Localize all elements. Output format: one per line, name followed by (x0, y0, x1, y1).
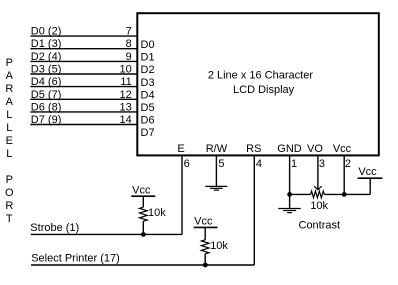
svg-text:L: L (6, 122, 12, 134)
svg-text:10k: 10k (310, 200, 328, 212)
svg-text:RS: RS (246, 143, 261, 155)
wire D1 (30, 48, 137, 50)
wire VO wiper (317, 155, 319, 189)
svg-text:T: T (6, 213, 13, 225)
svg-text:P: P (6, 174, 13, 186)
wire D4 (30, 86, 137, 88)
svg-text:8: 8 (126, 38, 132, 50)
svg-text:D1 (3): D1 (3) (31, 38, 62, 50)
svg-text:11: 11 (120, 76, 131, 88)
wire E to strobe (181, 155, 183, 234)
ground (contrast) (278, 194, 300, 212)
wire D2 (30, 60, 137, 62)
svg-text:P: P (6, 57, 13, 69)
svg-text:D5 (7): D5 (7) (31, 89, 62, 101)
svg-text:Vcc: Vcc (333, 143, 352, 155)
wire select printer (31, 264, 254, 266)
svg-text:2: 2 (345, 158, 351, 170)
wire strobe (31, 233, 182, 235)
LCD module U1 outline (137, 13, 378, 155)
resistor R2 10k (select pull-up) (201, 227, 209, 265)
svg-text:D2: D2 (141, 64, 155, 76)
svg-text:13: 13 (120, 101, 132, 113)
svg-text:D7: D7 (141, 127, 155, 139)
label PARALLEL PORT (5, 57, 14, 225)
wiper arrowhead (314, 186, 321, 190)
wire R/W to ground (215, 155, 217, 186)
svg-text:Vcc: Vcc (358, 166, 377, 178)
power Vcc symbol (strobe pull-up) (131, 185, 155, 197)
wire D3 (30, 73, 137, 75)
resistor R1 10k (strobe pull-up) (140, 196, 148, 234)
svg-text:9: 9 (126, 51, 132, 63)
svg-text:E: E (6, 135, 13, 147)
wire contrast rail (290, 178, 371, 194)
svg-text:D6: D6 (141, 115, 155, 127)
svg-text:12: 12 (120, 89, 132, 101)
svg-text:D7 (9): D7 (9) (31, 114, 62, 126)
wire RS to select printer (253, 155, 255, 265)
wire GND pin down (289, 155, 291, 194)
wire D7 (30, 124, 137, 126)
power Vcc symbol (right) (358, 166, 383, 178)
svg-text:1: 1 (291, 158, 297, 170)
svg-text:14: 14 (120, 114, 132, 126)
svg-text:A: A (6, 96, 14, 108)
svg-text:7: 7 (126, 26, 132, 38)
svg-text:VO: VO (307, 143, 323, 155)
svg-text:D3 (5): D3 (5) (31, 64, 62, 76)
svg-text:Contrast: Contrast (299, 219, 341, 231)
power Vcc symbol (select pull-up) (194, 215, 218, 227)
svg-text:10: 10 (120, 64, 132, 76)
svg-text:Select Printer (17): Select Printer (17) (31, 253, 120, 265)
junction node (select/RS) (203, 263, 208, 268)
svg-text:2 Line x 16 Character: 2 Line x 16 Character (208, 70, 314, 82)
svg-text:O: O (5, 187, 14, 199)
svg-text:R: R (5, 200, 13, 212)
wire Vcc pin down (343, 155, 345, 194)
svg-text:Strobe (1): Strobe (1) (30, 222, 79, 234)
svg-text:E: E (177, 143, 184, 155)
LCD module title (208, 70, 314, 97)
svg-text:10k: 10k (148, 207, 166, 219)
svg-text:D2 (4): D2 (4) (31, 51, 62, 63)
svg-text:Vcc: Vcc (132, 185, 151, 197)
svg-text:L: L (6, 109, 12, 121)
svg-text:GND: GND (277, 143, 302, 155)
svg-text:D4 (6): D4 (6) (31, 76, 62, 88)
svg-text:R: R (5, 83, 13, 95)
svg-text:D0 (2): D0 (2) (31, 26, 62, 38)
svg-text:Vcc: Vcc (194, 215, 213, 227)
junction node (GND rail) (287, 192, 292, 197)
svg-text:D5: D5 (141, 102, 155, 114)
ground (R/W) (205, 186, 227, 190)
potentiometer R3 10k (contrast) (311, 191, 325, 198)
svg-text:D1: D1 (141, 52, 155, 64)
svg-text:L: L (6, 148, 12, 160)
junction node (strobe/E) (141, 232, 146, 237)
svg-text:R/W: R/W (206, 143, 228, 155)
svg-text:D0: D0 (141, 39, 155, 51)
svg-text:D4: D4 (141, 89, 155, 101)
wire D6 (30, 111, 137, 113)
wire D5 (30, 98, 137, 100)
svg-text:D3: D3 (141, 77, 155, 89)
svg-text:6: 6 (184, 158, 190, 170)
svg-text:D6 (8): D6 (8) (31, 101, 62, 113)
svg-text:4: 4 (256, 158, 262, 170)
svg-text:10k: 10k (210, 240, 228, 252)
svg-text:5: 5 (218, 158, 224, 170)
junction node (Vcc rail) (342, 192, 347, 197)
svg-text:3: 3 (319, 158, 325, 170)
svg-text:A: A (6, 70, 14, 82)
wire D0 (30, 35, 137, 37)
svg-text:LCD Display: LCD Display (233, 84, 295, 96)
